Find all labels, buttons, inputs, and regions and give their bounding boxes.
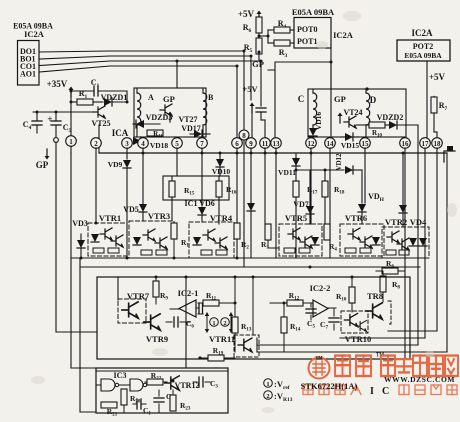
transistor cell VTR4 bbox=[189, 213, 234, 258]
svg-text:STK6722H(1A): STK6722H(1A) bbox=[301, 381, 358, 391]
transistor VTR7 bbox=[118, 291, 150, 323]
diode VD10 bbox=[212, 153, 231, 176]
diode VD15 bbox=[341, 133, 360, 150]
IC POT2 bbox=[397, 28, 450, 138]
svg-text:AO1: AO1 bbox=[20, 70, 36, 79]
svg-text:C6: C6 bbox=[186, 319, 194, 330]
pin 4 bbox=[138, 138, 149, 149]
svg-text:4: 4 bbox=[141, 140, 145, 148]
transistor VT27 bbox=[160, 104, 198, 124]
transformer C-D box bbox=[298, 87, 406, 137]
pin 2 bbox=[91, 138, 102, 149]
svg-text:TM: TM bbox=[315, 355, 323, 360]
svg-text:VTR3: VTR3 bbox=[148, 211, 170, 221]
svg-text:VTR6: VTR6 bbox=[345, 213, 367, 223]
svg-text:+: + bbox=[47, 114, 52, 124]
transformer A-B box bbox=[134, 88, 214, 137]
zener VDZD1 bbox=[101, 93, 128, 106]
svg-text:VD18: VD18 bbox=[150, 141, 169, 150]
svg-text:VD16: VD16 bbox=[314, 112, 323, 131]
svg-text:VD3: VD3 bbox=[72, 219, 88, 228]
svg-text:VD9: VD9 bbox=[108, 160, 123, 169]
wire bus DO1 bbox=[39, 51, 244, 130]
svg-text:2: 2 bbox=[266, 393, 269, 400]
winding A bbox=[137, 93, 141, 125]
arrow GP in box bbox=[168, 112, 173, 123]
resistor R4 bbox=[274, 19, 290, 33]
diode top small b bbox=[399, 153, 407, 226]
watermark big char 3 bbox=[381, 356, 395, 377]
svg-text:C7: C7 bbox=[320, 320, 328, 331]
capacitor C1 bbox=[71, 78, 127, 102]
transistor cell VTR5 bbox=[279, 213, 322, 256]
svg-text:R17: R17 bbox=[307, 185, 318, 196]
svg-text:IC2A: IC2A bbox=[24, 29, 45, 39]
capacitor C mid bbox=[256, 104, 266, 138]
pin 17 bbox=[420, 138, 431, 149]
svg-text:15: 15 bbox=[362, 140, 370, 148]
capacitor C1 lower bbox=[133, 399, 151, 417]
op-amp IC2-1 bbox=[170, 288, 203, 317]
svg-text:R23: R23 bbox=[180, 401, 191, 412]
svg-text:C: C bbox=[298, 94, 305, 104]
svg-text:R10: R10 bbox=[336, 292, 347, 303]
wire bus row B bbox=[80, 266, 420, 268]
resistor R1 cell bbox=[171, 222, 189, 258]
svg-text:E05A 09BA: E05A 09BA bbox=[292, 7, 335, 17]
capacitor C5 electrolytic bbox=[47, 112, 71, 142]
svg-text:IC1: IC1 bbox=[185, 199, 198, 208]
ground GP left bbox=[36, 149, 50, 170]
diode VD17 bbox=[181, 124, 210, 138]
pin 16 bbox=[400, 138, 411, 149]
svg-text:VD5: VD5 bbox=[123, 205, 139, 214]
svg-text:R3: R3 bbox=[279, 48, 288, 59]
pin 13 bbox=[271, 138, 282, 149]
resistor R3 cell bbox=[261, 224, 279, 251]
diode VD5 bbox=[123, 204, 147, 221]
svg-text:IC2A: IC2A bbox=[333, 30, 354, 40]
svg-text:VT24: VT24 bbox=[343, 108, 362, 117]
diode VD9 bbox=[108, 160, 131, 258]
transistor VT24 bbox=[343, 108, 362, 128]
supply +5V top middle bbox=[238, 9, 262, 21]
svg-text:VTR11: VTR11 bbox=[209, 334, 235, 344]
svg-text:8: 8 bbox=[242, 132, 246, 140]
svg-text:C1: C1 bbox=[143, 406, 151, 417]
svg-text:R21: R21 bbox=[107, 407, 118, 418]
svg-text:A: A bbox=[148, 93, 154, 102]
supply +5V right bbox=[429, 72, 446, 106]
wire main bus under pins bbox=[99, 152, 447, 154]
resistor R19 bbox=[198, 346, 235, 361]
resistor R1 bbox=[71, 89, 103, 105]
watermark big char 5 bbox=[413, 356, 427, 377]
IC U-IC2A (driver) bbox=[13, 22, 53, 86]
gate IC3a bbox=[96, 379, 119, 391]
svg-text:3: 3 bbox=[125, 140, 129, 148]
svg-text:1: 1 bbox=[212, 320, 215, 327]
transistor VTR10 bbox=[341, 311, 371, 344]
svg-text:11: 11 bbox=[262, 140, 269, 148]
svg-text:R2: R2 bbox=[241, 240, 249, 251]
svg-text:GP: GP bbox=[163, 94, 175, 104]
wire mid verticals bbox=[118, 277, 186, 368]
wire left rail 3 bbox=[80, 258, 96, 412]
svg-text:R18: R18 bbox=[334, 185, 345, 196]
capacitor C7 bbox=[320, 308, 339, 331]
pin 6 bbox=[232, 138, 243, 149]
diode VD18 bbox=[133, 137, 168, 150]
pin 8 bbox=[239, 130, 249, 140]
diode VD11 bbox=[278, 153, 344, 182]
svg-text:E05A 09BA: E05A 09BA bbox=[404, 51, 442, 60]
resistor R11 small bbox=[147, 130, 163, 140]
zener VDZD2 + resistor R10 bbox=[356, 113, 418, 153]
capacitor C4 feedback bbox=[196, 303, 203, 313]
wire bus BO1 bbox=[39, 56, 251, 100]
svg-text:R20: R20 bbox=[130, 394, 141, 405]
wire bus AO1 bbox=[39, 66, 237, 138]
watermark logo bbox=[309, 355, 330, 379]
svg-text:1: 1 bbox=[266, 381, 269, 388]
svg-text::Vref: :Vref bbox=[274, 379, 290, 391]
svg-text:R7: R7 bbox=[439, 101, 448, 112]
svg-text:R5: R5 bbox=[244, 43, 253, 54]
wire left rail 2 bbox=[71, 153, 96, 368]
capacitor C6 bbox=[166, 317, 194, 330]
resistor R2 cell bbox=[234, 223, 249, 251]
pin 11 bbox=[260, 138, 271, 149]
svg-text:D: D bbox=[370, 95, 377, 105]
resistor R17 bbox=[293, 181, 318, 258]
node GP rectangle route bbox=[252, 59, 331, 137]
svg-text:13: 13 bbox=[273, 140, 281, 148]
pin 9 bbox=[246, 138, 257, 149]
watermark big char 4 bbox=[397, 359, 411, 372]
svg-text:C5: C5 bbox=[307, 319, 315, 330]
note 1 Vref bbox=[264, 379, 290, 391]
svg-text:B: B bbox=[208, 93, 214, 102]
svg-text:+5V: +5V bbox=[238, 9, 255, 19]
svg-text:2: 2 bbox=[94, 140, 98, 148]
svg-text:IC2A: IC2A bbox=[411, 28, 433, 38]
transistor VTR9 bbox=[144, 314, 168, 344]
svg-text:C4: C4 bbox=[23, 120, 32, 131]
svg-text:VTR10: VTR10 bbox=[345, 334, 371, 344]
watermark big char 7 bbox=[445, 356, 458, 377]
op-amp IC2-2 bbox=[310, 283, 336, 317]
zener VDZD3 bbox=[133, 113, 172, 128]
svg-text:ICA: ICA bbox=[112, 128, 129, 138]
svg-text:+35V: +35V bbox=[47, 79, 68, 89]
node corner bracket right bbox=[444, 146, 455, 162]
resistor R8 bbox=[380, 271, 400, 302]
pin 18 bbox=[432, 138, 443, 149]
note 2 VR13 bbox=[264, 391, 293, 403]
svg-text:17: 17 bbox=[422, 140, 430, 148]
svg-text:VD11: VD11 bbox=[278, 168, 296, 177]
transistor cell VTR3 bbox=[129, 211, 174, 258]
svg-text::VR13: :VR13 bbox=[274, 391, 293, 403]
diode top small a bbox=[247, 203, 255, 258]
transistor cell VTR2 bbox=[382, 217, 429, 258]
svg-text:9: 9 bbox=[249, 140, 253, 148]
gate IC3b bbox=[119, 379, 147, 391]
svg-text:VD10: VD10 bbox=[212, 167, 231, 176]
resistor R6 bbox=[243, 17, 262, 39]
diode VDH bbox=[358, 192, 385, 224]
svg-text:R8: R8 bbox=[392, 280, 400, 291]
pin 1 bbox=[66, 136, 77, 147]
resistor R21 bbox=[101, 402, 118, 418]
svg-text:C: C bbox=[382, 386, 389, 397]
svg-text:POT0: POT0 bbox=[297, 25, 317, 34]
svg-text:VD17: VD17 bbox=[181, 124, 201, 133]
svg-text:VD15: VD15 bbox=[341, 141, 360, 150]
capacitor C5 lower bbox=[306, 303, 316, 330]
resistor R6 lower bbox=[376, 259, 405, 274]
resistor R23 bbox=[170, 390, 191, 412]
wire pin drops bbox=[71, 140, 447, 359]
capacitor C2 bbox=[154, 390, 174, 412]
svg-text:C5: C5 bbox=[63, 123, 72, 134]
winding D bbox=[366, 93, 370, 125]
resistor R12 bbox=[270, 291, 313, 306]
svg-text:18: 18 bbox=[434, 140, 442, 148]
arrow GP in CD box bbox=[338, 113, 343, 124]
wire mid module box bbox=[97, 277, 410, 359]
svg-text:+5V: +5V bbox=[242, 84, 258, 94]
wire left edge of module bbox=[98, 125, 100, 153]
resistor R20 bbox=[121, 389, 141, 412]
wire R4/R3 tee bbox=[259, 30, 294, 43]
svg-text:TR8: TR8 bbox=[367, 291, 383, 301]
svg-text:IC2-1: IC2-1 bbox=[178, 288, 199, 298]
wire emitter row bbox=[33, 111, 93, 113]
pin 7 bbox=[197, 138, 208, 149]
svg-text:VTR2: VTR2 bbox=[385, 217, 407, 227]
svg-text:1: 1 bbox=[69, 138, 73, 146]
wire left rail 1 bbox=[56, 142, 97, 332]
watermark small char row bbox=[303, 385, 457, 395]
wire bus row A bbox=[71, 257, 426, 259]
svg-text:R15: R15 bbox=[184, 186, 195, 197]
supply +35V bbox=[47, 79, 74, 135]
svg-text:VDZD2: VDZD2 bbox=[377, 113, 404, 122]
svg-text:IC2-2: IC2-2 bbox=[310, 283, 331, 293]
resistor R14 bbox=[281, 303, 301, 352]
svg-text:POT2: POT2 bbox=[413, 42, 433, 51]
svg-text:+5V: +5V bbox=[429, 72, 446, 82]
svg-text:VD6: VD6 bbox=[199, 199, 215, 208]
diode VD16 bbox=[309, 112, 323, 138]
resistor R10 lower bbox=[336, 277, 355, 312]
diode VD3 bbox=[72, 219, 88, 258]
svg-text:VTR9: VTR9 bbox=[146, 334, 168, 344]
transistor cell VTR6 bbox=[340, 213, 384, 256]
diode VD7 bbox=[293, 170, 314, 224]
svg-text:VD7: VD7 bbox=[293, 200, 309, 209]
svg-text:VTR1: VTR1 bbox=[99, 213, 121, 223]
resistor R7 bbox=[431, 97, 448, 138]
svg-text:14: 14 bbox=[327, 140, 335, 148]
resistor R18 bbox=[322, 170, 345, 224]
diode VD12 bbox=[335, 153, 362, 203]
svg-text:VDH: VDH bbox=[368, 192, 385, 203]
watermark big char 1 bbox=[335, 356, 350, 377]
svg-text:R9: R9 bbox=[160, 291, 168, 302]
svg-text:WWW.DZSC.COM: WWW.DZSC.COM bbox=[384, 375, 455, 384]
svg-text:6: 6 bbox=[235, 140, 239, 148]
IC1 box with R15 R16 bbox=[163, 176, 237, 224]
transistor cell VTR1 bbox=[88, 213, 127, 256]
svg-text:C3: C3 bbox=[210, 379, 218, 390]
svg-text:VD12: VD12 bbox=[335, 153, 343, 171]
svg-text:VT25: VT25 bbox=[91, 119, 110, 128]
winding C bbox=[313, 93, 317, 125]
svg-text:R16: R16 bbox=[226, 185, 237, 196]
svg-text:R13: R13 bbox=[241, 322, 252, 333]
svg-text:GP: GP bbox=[36, 160, 49, 170]
watermark big char 2 bbox=[356, 352, 385, 376]
transistor VTR12 bbox=[165, 376, 200, 390]
svg-text:16: 16 bbox=[402, 140, 410, 148]
pin 15 bbox=[360, 138, 371, 149]
svg-text:R6: R6 bbox=[243, 23, 252, 34]
pin 3 bbox=[122, 138, 133, 149]
IC3 box bbox=[96, 368, 228, 413]
svg-text:5: 5 bbox=[175, 140, 179, 148]
svg-text:IC3: IC3 bbox=[114, 371, 127, 380]
diode VD6 bbox=[198, 199, 215, 222]
supply +5V mid bbox=[242, 84, 258, 138]
svg-text:2: 2 bbox=[223, 320, 226, 327]
wire bus CO1 bbox=[39, 61, 261, 104]
resistor R22 bbox=[145, 371, 167, 385]
capacitor C4 bbox=[23, 112, 42, 133]
svg-text:GP: GP bbox=[334, 94, 346, 104]
svg-text:R4: R4 bbox=[329, 242, 337, 253]
pin 12 bbox=[306, 138, 317, 149]
svg-text:R14: R14 bbox=[290, 322, 301, 333]
pin 5 bbox=[172, 138, 183, 149]
resistor R3 bbox=[274, 40, 290, 59]
svg-text:R1: R1 bbox=[181, 238, 189, 249]
resistor R5 bbox=[244, 38, 262, 61]
transistor VT25 bbox=[91, 102, 110, 128]
svg-text:POT1: POT1 bbox=[297, 37, 317, 46]
resistor R9 bbox=[153, 277, 168, 304]
IC POT0/POT1 bbox=[292, 7, 354, 89]
svg-text:VT27: VT27 bbox=[178, 115, 197, 124]
watermark big text row bbox=[335, 352, 458, 376]
svg-text:12: 12 bbox=[308, 140, 316, 148]
pin 14 bbox=[325, 138, 336, 149]
resistor R4 cell bbox=[324, 224, 337, 253]
capacitor C3 bbox=[193, 377, 218, 390]
resistor R13 bbox=[232, 277, 252, 352]
winding B bbox=[203, 93, 207, 125]
wire nested corners right bbox=[257, 153, 447, 352]
wire junction dots bbox=[36, 35, 405, 383]
svg-text:I: I bbox=[370, 386, 374, 397]
svg-text:VTR5: VTR5 bbox=[285, 213, 307, 223]
transistor TR8 bbox=[366, 291, 391, 324]
node 1 2 arrows bbox=[205, 312, 233, 333]
watermark big char 6 bbox=[429, 356, 443, 377]
svg-text:7: 7 bbox=[200, 140, 204, 148]
transistor VTR11 bbox=[209, 277, 259, 357]
resistor R11 lower bbox=[203, 291, 235, 306]
